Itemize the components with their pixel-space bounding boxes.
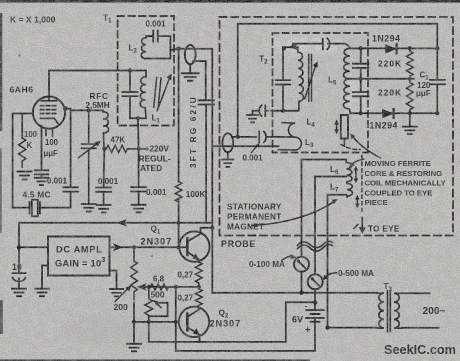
200 wiper arrow (115, 289, 128, 302)
capacitor 100uuF (35, 170, 48, 174)
ground G9 (127, 344, 141, 352)
leader to core (354, 138, 381, 159)
potentiometer 200 (131, 247, 138, 299)
capacitor doubler 1 (353, 48, 369, 78)
tube V1 heater stubs (45, 128, 47, 136)
wire C bottom (176, 318, 315, 351)
capacitor 0.001 T2 input (259, 132, 266, 143)
node dot (87, 108, 91, 112)
coil L4 arrow (305, 66, 316, 99)
core double arrow (336, 124, 338, 131)
speck (18, 54, 20, 56)
node dots 220K (408, 46, 412, 50)
coil L4 core (309, 55, 312, 102)
transformer T3 core (388, 291, 391, 332)
node dot tank bottom (136, 116, 140, 120)
transformer T1 dashed box (118, 16, 174, 126)
wire A horizontal (19, 222, 212, 224)
rail mid rectifier (350, 78, 414, 80)
node grid/100K (21, 114, 23, 139)
scan edge top (0, 0, 460, 3)
to eye arrow (361, 218, 363, 229)
capacitor 0.001 C (131, 187, 146, 191)
Q2 collector (187, 308, 199, 317)
wire cathode to RFC (71, 109, 103, 111)
resistor 0.27 upper (195, 262, 202, 287)
node dot wireC top (174, 320, 178, 324)
capacitor 0.001 A (63, 187, 77, 191)
probe line 3 (328, 195, 377, 328)
capacitor 10 input (12, 247, 25, 288)
coil L7 (347, 183, 353, 197)
speck (206, 171, 208, 173)
Q1 emitter (187, 252, 199, 262)
diode D1 1N294 (385, 44, 396, 53)
emitter rail y287 (145, 286, 200, 288)
double arrow coil lower (356, 199, 358, 205)
dashed link under core (341, 145, 360, 150)
node dot RFC bottom (102, 147, 106, 151)
amp lead to ground G10 (110, 271, 117, 289)
capacitor doubler top (323, 38, 330, 49)
amp ground lead (42, 266, 48, 289)
amp output arrow (110, 246, 114, 248)
coax drop to base rail (178, 49, 180, 248)
wire plate to T1 (49, 71, 146, 97)
resistor 220K 2 (406, 79, 413, 113)
tube V1 cathode (41, 118, 58, 123)
capacitor 0.001 T1 (153, 31, 158, 42)
resistor 6,8 (151, 284, 169, 290)
node dot rail/M1 (299, 291, 303, 295)
wire J1 down collector rail (211, 183, 213, 293)
dashes to inner box (265, 110, 272, 112)
node dots C1 (435, 46, 439, 50)
double arrow coil upper (355, 170, 357, 180)
resistor 100K grid (19, 138, 26, 167)
cable break squiggles (298, 241, 333, 247)
base rail Q2 (134, 321, 187, 323)
capacitor 0.001 B (96, 188, 111, 192)
ground G4 (97, 205, 111, 213)
coil L4 (298, 47, 304, 110)
ground G8 (12, 289, 26, 297)
coil L5 (343, 48, 350, 113)
leader stationary magnet (253, 202, 335, 226)
diode D2 1N294 (382, 109, 393, 118)
trimmer arrow (79, 143, 98, 157)
node dots caps (359, 46, 363, 50)
scan edge left (0, 13, 2, 131)
tube V1 grid dashes (41, 106, 59, 114)
solid frame wire top (238, 24, 438, 137)
resistor 100K coax (175, 182, 182, 202)
node dots rail (147, 285, 151, 289)
moving ferrite core rect (341, 115, 348, 139)
amplifier DC AMPL box (48, 237, 110, 276)
wire B (149, 302, 315, 342)
T2 primary column with capacitor (276, 47, 291, 110)
node dot base/coax (177, 245, 181, 249)
wire T2 to doubler cap (293, 44, 350, 49)
tube V1 envelope (33, 97, 65, 129)
ground G6 coax (182, 64, 199, 80)
coil L2 (141, 36, 146, 59)
leader moving text to coil (352, 159, 364, 164)
ground G1 (18, 172, 32, 180)
capacitor C1 (430, 48, 445, 113)
wire J2 return (212, 145, 278, 147)
rail bottom rectifier (350, 112, 437, 114)
coax connector J1 (185, 45, 196, 64)
resistor 47K (104, 145, 139, 152)
transformer T3 secondary (394, 293, 402, 328)
rail arrowhead at 200 pot (137, 283, 147, 290)
ground G12 (222, 152, 233, 167)
ground G13 (403, 113, 417, 134)
transistor Q2 (179, 307, 209, 337)
node dot 500/base (147, 320, 151, 324)
wire A arrowhead (117, 219, 128, 227)
choke RFC 2.5MH (103, 110, 109, 148)
wire 200 to ground (133, 303, 135, 344)
crystal Y1 4.5MC (30, 202, 40, 214)
probe line 2 (314, 177, 316, 303)
ground G5 (132, 205, 146, 213)
node dot frame bottom (236, 135, 240, 139)
coil L1 core (154, 78, 161, 108)
capacitor coax line (199, 100, 215, 104)
coil L1 arrow (157, 78, 169, 111)
meter M2 0-500MA (308, 274, 323, 289)
ground G2 (35, 174, 48, 185)
Q1 collector (187, 228, 212, 242)
node dot 220V rail (137, 147, 141, 151)
wire base rail Q1 (122, 246, 188, 248)
node dot 200 top (132, 245, 136, 249)
wire cathode right (64, 109, 70, 187)
capacitor T2 ground leg (259, 105, 265, 116)
T2 top wire with arrow (283, 46, 298, 48)
wire C drop (175, 287, 177, 351)
capacitor 100uuF lead (41, 126, 43, 170)
resistor 220K 1 (406, 48, 413, 78)
coil L1 (140, 71, 146, 119)
wire L2 to cap (146, 36, 178, 58)
wire T1 tank down to rail (137, 118, 140, 186)
500 wiper arrow and strap (156, 303, 161, 308)
capacitor doubler 2 (353, 79, 369, 113)
text separator dashes (361, 156, 363, 212)
ground G11 (247, 111, 258, 123)
battery 6V (306, 302, 324, 321)
node dot A/coax (177, 221, 181, 225)
restoring coil wires (302, 160, 347, 195)
wire rail to cap B (103, 149, 106, 187)
outer dashed enclosure box (220, 17, 454, 236)
speck (151, 255, 153, 257)
T2 bottom wire (283, 110, 298, 112)
scan edge bottom (0, 359, 310, 361)
Q2 emitter (187, 327, 199, 342)
node dot base rail Q2 (132, 320, 136, 324)
wire grid left (13, 114, 34, 208)
probe line 1 (301, 160, 303, 293)
leader M1 (282, 256, 294, 260)
wire T2 bottom to grounded cap (253, 110, 284, 112)
wire tank bottom (130, 117, 146, 119)
capacitor T1 tank (128, 68, 132, 72)
crystal bus wire (13, 207, 71, 209)
ground G10 (110, 289, 124, 296)
node dot collector rail (210, 226, 214, 230)
wire 500 to base rail (148, 316, 150, 342)
wire coax top to right column (179, 49, 213, 183)
variable capacitor trimmer (82, 110, 96, 203)
T3 secondary leads (402, 293, 439, 327)
node dot coax in (176, 47, 181, 52)
transformer T3 primary (377, 293, 384, 328)
tube V1 plate (42, 97, 57, 101)
coil L3 (278, 123, 301, 150)
node dot bottom rail (408, 111, 412, 115)
node dot T3 return (325, 326, 329, 330)
wire coax second line (193, 61, 206, 100)
wire J2 to L3 top (233, 136, 279, 138)
ground G3 (82, 204, 96, 212)
wire amp input (19, 246, 48, 248)
resistor 0.27 lower (195, 289, 202, 312)
collector rail bottom (212, 292, 376, 294)
leader 0.001 (252, 145, 258, 153)
inner dashed box T2 assembly (273, 33, 369, 153)
transistor Q1 (179, 231, 209, 261)
rail top rectifier (350, 47, 437, 49)
coil L6 (346, 160, 352, 182)
ground G7 (35, 289, 49, 297)
node dot wire A left (18, 223, 20, 248)
meter M1 0-100MA (294, 257, 309, 272)
node dot battery top (313, 300, 317, 304)
leader M2 (325, 273, 337, 277)
coax connector J2 probe (222, 133, 233, 152)
wire cap A to crystal bus (70, 192, 72, 208)
potentiometer 500 (145, 287, 153, 322)
